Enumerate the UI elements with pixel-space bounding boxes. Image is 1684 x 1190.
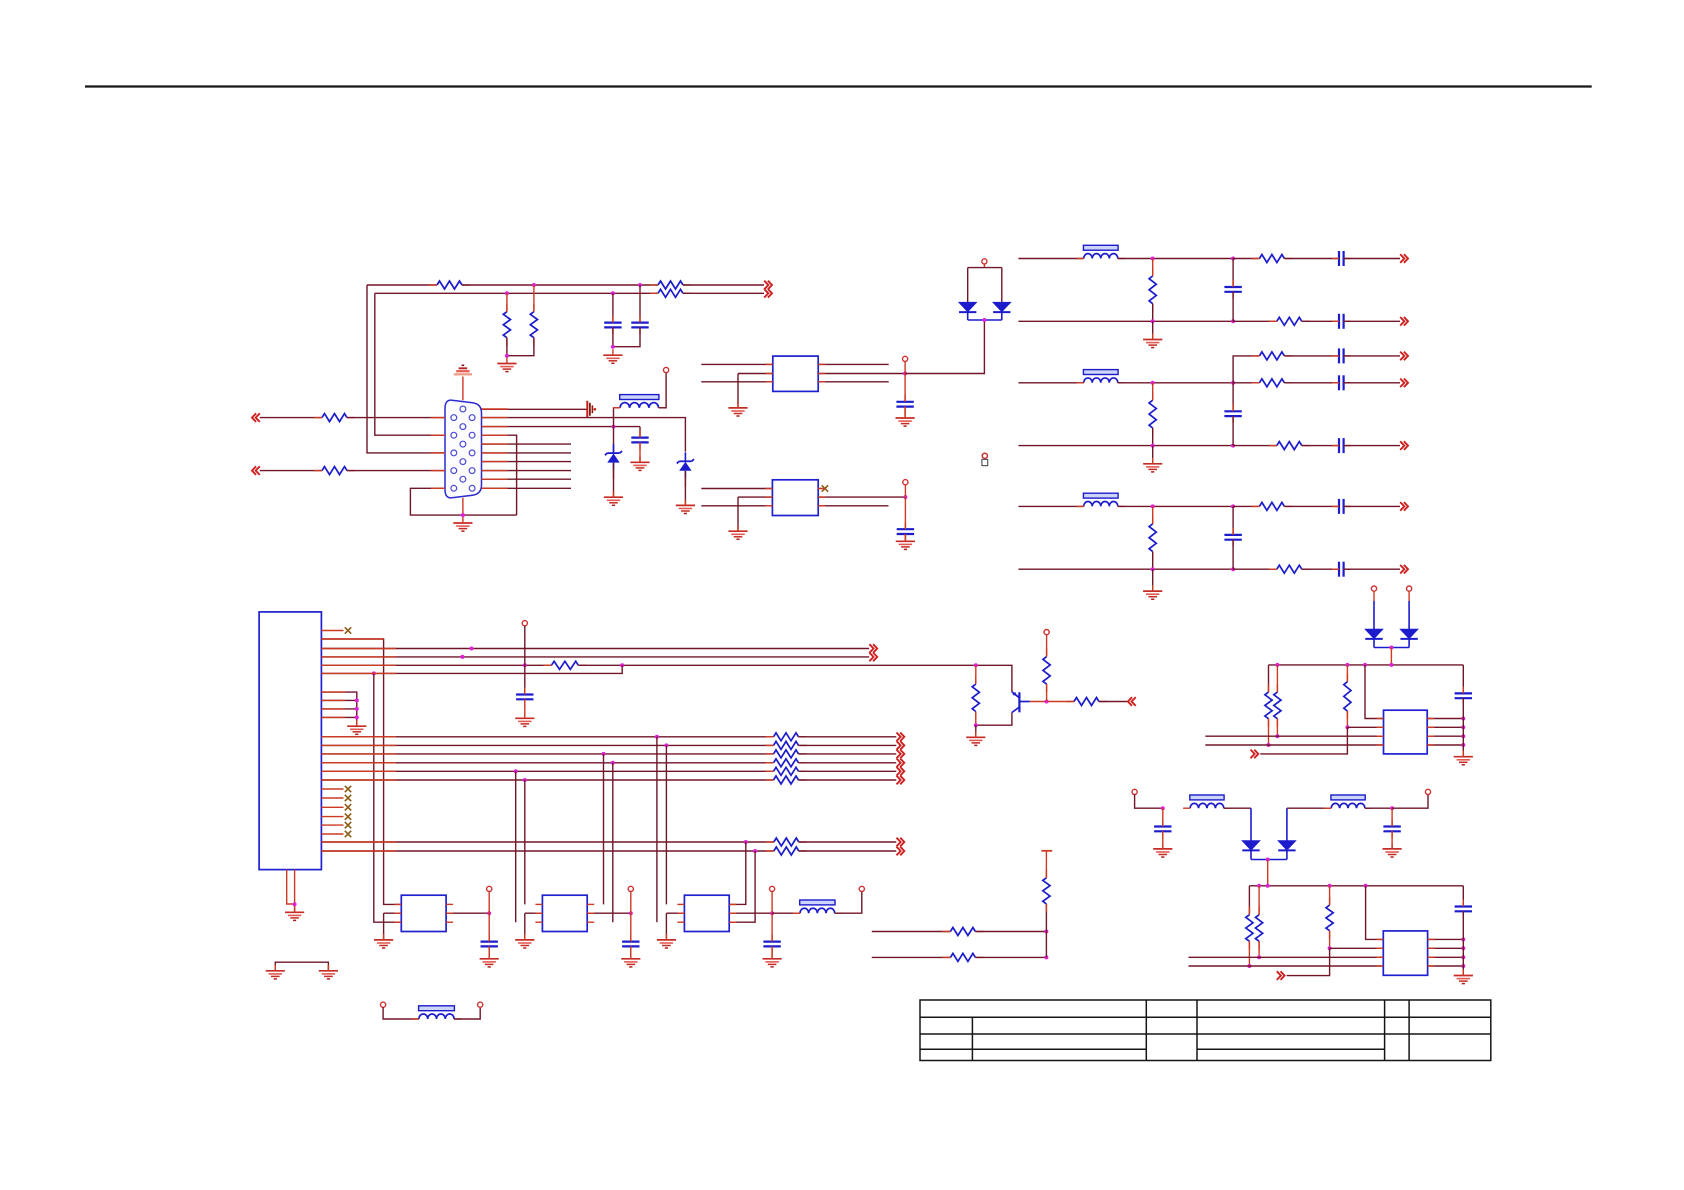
junction U5 out <box>629 911 633 915</box>
terminal TP14 <box>1407 586 1412 591</box>
junction U7 736 <box>1461 734 1465 738</box>
wire usb1 pin2 <box>1347 726 1383 728</box>
wire ch3 cap bot lead <box>1232 540 1234 570</box>
diode D3 <box>959 302 976 312</box>
ground G17 <box>480 953 499 967</box>
wire net1 mid <box>462 284 658 286</box>
junction A3 <box>470 647 474 651</box>
wire U3 row C2 <box>321 744 773 746</box>
wire R19 top lead <box>1346 665 1348 682</box>
series capacitor Cs1 <box>1332 251 1351 266</box>
wire row C1 out <box>799 736 897 738</box>
wire ch2 sig b <box>1233 382 1259 384</box>
junction ch3 bus-cap <box>1231 567 1235 571</box>
test point symbol <box>982 453 988 465</box>
resistor R2 <box>650 281 691 289</box>
wire U1 gnd drop <box>737 374 739 408</box>
junction U7 718 <box>1461 717 1465 721</box>
junction vbus 1391 <box>1389 663 1393 667</box>
filter module U1 <box>773 356 818 391</box>
wire A6 drop to boxA <box>374 673 402 922</box>
junction U1 out <box>903 372 907 376</box>
junction R11 gnd <box>974 723 978 727</box>
wire D4 anode lead <box>1001 268 1003 303</box>
junction U8 948 <box>1461 946 1465 950</box>
junction gnd pin3 <box>355 707 359 711</box>
wire D8 top lead <box>1287 808 1331 841</box>
wire FB9 right lead <box>454 1007 480 1019</box>
ground G9 <box>728 525 747 539</box>
USB filter U7 <box>1384 710 1428 754</box>
terminal TP8 <box>770 886 775 913</box>
junction net1-b <box>638 283 642 287</box>
wire U3 nc pin2 <box>321 797 343 799</box>
wire U3 pin A1 stub <box>321 630 343 632</box>
wire U1 left pin3 stub <box>701 381 773 383</box>
filter module U2 <box>772 480 818 516</box>
wire cap top lead U4 <box>488 913 490 941</box>
resistor RC2 <box>766 741 807 749</box>
series capacitor Cb3 <box>1332 562 1351 577</box>
wire ch2 res top lead <box>1152 383 1154 400</box>
wire U4 midleft gnd <box>384 912 402 914</box>
wire C4 gnd lead <box>904 407 906 418</box>
wire ch1 gnd stem <box>1152 321 1154 339</box>
diode D5 <box>1365 629 1382 639</box>
wire U3 nc pin3 <box>321 806 343 808</box>
ground G20 <box>966 731 985 745</box>
wire vbus upper <box>1269 664 1464 666</box>
junction ch2 sig-cap <box>1231 381 1235 385</box>
capacitor Cch2 <box>1224 404 1241 423</box>
wire U3 nc pin1 <box>321 788 343 790</box>
junction R17 <box>1267 743 1271 747</box>
wire U3 pin A2 net <box>321 639 401 904</box>
no-connect XD4 <box>345 813 351 819</box>
wire C2 drop <box>665 745 667 904</box>
resistor R13 <box>1066 698 1107 706</box>
terminal TP6 <box>487 886 492 913</box>
wire U1 left pin2 gnd <box>738 373 773 375</box>
wire VGA stub 3 <box>482 461 572 463</box>
junction ch3 bus-res <box>1151 567 1155 571</box>
wire U1 right pin3 stub <box>818 381 889 383</box>
ground G11 <box>347 720 366 734</box>
ground G21 <box>266 965 285 979</box>
output port ch3 bus <box>1400 565 1408 574</box>
terminal TP7 <box>628 886 633 913</box>
input port row1 <box>252 413 260 422</box>
wire E2 drop to boxC <box>729 851 755 922</box>
ferrite bead FB11 <box>1324 795 1372 808</box>
resistor Rs1 <box>1251 255 1292 263</box>
resistor Rx2 <box>1251 352 1292 360</box>
input port usb2 <box>1277 971 1285 980</box>
wire zener D1 top lead <box>613 427 615 453</box>
capacitor C3 <box>631 431 648 450</box>
junction C4 <box>611 761 615 765</box>
wire ch2 signal a <box>1118 382 1233 384</box>
resistor R3 <box>650 289 691 297</box>
series capacitor Cx2 <box>1332 348 1351 363</box>
wire C1 top lead <box>612 293 614 322</box>
wire zener D2 bottom lead <box>684 471 686 505</box>
wire usb1 pin1 <box>1365 665 1384 719</box>
wire C1 bottom lead <box>612 327 614 346</box>
wire ch3 bus out <box>1344 568 1400 570</box>
output port C1 <box>897 733 905 742</box>
wire TP15 lead <box>1135 795 1163 809</box>
resistor R16 <box>1043 870 1050 912</box>
ground G19 <box>763 953 782 967</box>
ground Gch2 <box>1143 458 1162 472</box>
wire C3 gnd lead <box>639 442 641 462</box>
wire U5 midleft gnd <box>525 912 543 914</box>
wire D6 anode lead <box>1408 591 1410 629</box>
ground G8 <box>896 412 915 426</box>
wire U3 row E1 <box>321 841 773 843</box>
ferrite bead FB1 <box>613 395 666 408</box>
wire ch3 gnd stem <box>1152 569 1154 591</box>
transistor Q1 <box>1012 692 1030 713</box>
junction R4R5 <box>505 354 509 358</box>
wire R19 bot lead <box>1346 711 1348 727</box>
terminal TP12 <box>478 1002 483 1007</box>
wire C6 drop <box>524 780 526 904</box>
junction gnd pin2 <box>355 698 359 702</box>
junction A5 term <box>523 663 527 667</box>
junction ch2 bus-cap <box>1231 444 1235 448</box>
wire ch1 bus <box>1018 320 1233 322</box>
capacitor C2 <box>631 316 648 335</box>
resistor Rb2 <box>1269 442 1310 450</box>
ground G14 <box>374 934 393 948</box>
resistor RC6 <box>766 776 807 784</box>
junction vbus2 1329 <box>1328 884 1332 888</box>
series capacitor Cb1 <box>1332 314 1351 329</box>
resistor R18 <box>1274 684 1281 727</box>
diode D4 <box>993 302 1010 312</box>
junction R20 <box>1247 964 1251 968</box>
junction E1 <box>744 840 748 844</box>
output port ch2 branch <box>1400 352 1408 361</box>
wire D5D6 to vbus <box>1390 648 1392 665</box>
wire U4 midright net <box>446 912 489 914</box>
junction A6 boxA <box>372 671 376 675</box>
filter module U5 <box>542 895 587 931</box>
wire U2 right pin1 nc <box>818 488 822 490</box>
junction ch1 bus-cap <box>1231 319 1235 323</box>
terminal TP3 <box>982 259 987 264</box>
wire ch3 bus <box>1018 568 1233 570</box>
wire U6 out to FB8 <box>772 912 800 914</box>
junction C5 <box>514 769 518 773</box>
capacitor C12 <box>1383 820 1400 839</box>
output port A4 <box>869 653 877 662</box>
wire R21 top lead <box>1258 886 1260 915</box>
zener diode D2 <box>677 452 694 487</box>
wire ch1 res top lead <box>1152 259 1154 276</box>
junction E2 <box>753 849 757 853</box>
wire U8 right pin 966 <box>1428 965 1464 967</box>
junction ch1 bus-res <box>1151 319 1155 323</box>
wire U3 gnd pin2 <box>321 699 356 701</box>
wire U3 pin A3 net <box>321 648 869 650</box>
wire E1 drop to boxC <box>729 842 746 904</box>
junction zener-ferrite <box>612 425 616 429</box>
resistor R6 <box>314 414 355 422</box>
wire R18 top lead <box>1276 665 1278 692</box>
junction ch3 sig-res <box>1151 504 1155 508</box>
wire diode join rail lower USB <box>1251 850 1287 859</box>
wire U8 right pin 939 <box>1428 938 1464 940</box>
ground G15 <box>515 934 534 948</box>
wire R20 top lead <box>1248 886 1250 915</box>
resistor R14 <box>942 928 983 936</box>
junction vbus2 1365 <box>1364 884 1368 888</box>
wire FB1 right lead <box>659 373 667 408</box>
power tap bar <box>1041 850 1052 852</box>
wire usb1 d- <box>1205 744 1383 746</box>
terminal TP5 <box>522 621 527 626</box>
wire U6 midleft gnd <box>666 912 684 914</box>
wire U4 gnd drop <box>383 913 385 940</box>
ground G23 <box>1454 751 1473 765</box>
VGA connector J1 pins <box>451 406 475 491</box>
wire R5 to R4 join <box>507 338 534 356</box>
output port ch1 bus <box>1400 317 1408 326</box>
terminal TP9 <box>859 886 864 891</box>
wire row4 to VGA <box>347 470 445 472</box>
wire U3 pin A5 net a <box>321 664 551 666</box>
wire ch3 cap top lead <box>1232 506 1234 535</box>
wire usb2 pin1 <box>1366 886 1384 940</box>
junction R21 <box>1257 955 1261 959</box>
junction U2 out <box>903 495 907 499</box>
ground G26 <box>1454 970 1473 984</box>
junction U6 out <box>770 911 774 915</box>
wire FB11 out <box>1365 807 1392 809</box>
ground Gch1 <box>1143 334 1162 348</box>
wire ch3 signal in <box>1018 505 1083 507</box>
wire C5 top lead <box>904 497 906 529</box>
terminal TP10 <box>1044 630 1049 635</box>
resistor R22 <box>1326 897 1333 939</box>
wire U3 gnd pin3 <box>321 708 356 710</box>
wire cap gnd lead U4 <box>488 946 490 958</box>
ground G24 <box>1153 843 1172 857</box>
wire U1 right pin1 stub <box>818 363 889 365</box>
junction ch1 sig-cap <box>1231 257 1235 261</box>
wire row1 to VGA <box>347 417 445 419</box>
junction vbus 1277 <box>1275 663 1279 667</box>
wire net2 drop to VGA pin <box>375 293 445 435</box>
wire R17 top lead <box>1268 665 1270 692</box>
wire ch1 bus out <box>1344 320 1400 322</box>
wire ch2 bus b <box>1233 445 1277 447</box>
wire gnd bridge <box>275 962 328 970</box>
junction U3 gnd <box>293 902 297 906</box>
wire ch1 cap bot lead <box>1232 292 1234 322</box>
wire row C5 out <box>799 770 897 772</box>
diode D8 <box>1278 841 1295 851</box>
wire U3 pin A6 net <box>321 665 622 673</box>
wire R16 top lead <box>1045 851 1047 878</box>
no-connect XD1 <box>345 786 351 792</box>
wire RP1 row <box>872 931 951 933</box>
series capacitor Cs3 <box>1332 499 1351 514</box>
resistor R7 <box>314 467 355 475</box>
wire U2 left pin2 gnd <box>738 496 772 498</box>
input port row4 <box>252 466 260 475</box>
junction RP2 <box>1044 955 1048 959</box>
wire diode join rail upper USB <box>1374 639 1409 648</box>
wire row C2 out <box>799 744 897 746</box>
series capacitor Cs2 <box>1332 375 1351 390</box>
resistor R17 <box>1265 684 1272 727</box>
wire ch2 bus <box>1018 445 1233 447</box>
wire U3 row C4 <box>321 762 773 764</box>
diode D7 <box>1242 841 1259 851</box>
wire U2 right pin3 stub <box>818 505 888 507</box>
junction usb2 out <box>1390 806 1394 810</box>
no-connect XD2 <box>345 795 351 801</box>
wire ch2 gnd stem <box>1152 446 1154 464</box>
junction U8 957 <box>1461 955 1465 959</box>
resistor R5 <box>530 304 537 346</box>
wire U3 pin A5 net b <box>578 665 1012 692</box>
ground G1 <box>497 358 516 372</box>
junction VGA gnd <box>461 513 465 517</box>
wire U3 gnd pin1 <box>321 692 356 726</box>
wire R5 top lead <box>533 285 535 312</box>
wire R12 top lead <box>1046 635 1048 657</box>
wire row4 left <box>260 470 322 472</box>
junction C3 <box>602 752 606 756</box>
junction D7D8 <box>1266 858 1270 862</box>
ground G3 <box>453 517 472 531</box>
wire chev to R19 <box>1260 727 1347 754</box>
no-connect X1 <box>822 485 828 491</box>
wire ch1 res bot lead <box>1152 304 1154 322</box>
capacitor C5 <box>897 522 914 541</box>
junction U8 939 <box>1461 937 1465 941</box>
wire RP1 row b <box>975 931 1046 933</box>
wire net1 top <box>367 284 437 286</box>
ferrite bead FB9 <box>412 1006 461 1019</box>
wire cap top lead U6 <box>771 913 773 941</box>
wire U3 row C1 <box>321 736 773 738</box>
wire U2 right pin2 net <box>818 496 905 498</box>
terminal TP16 <box>1425 789 1430 794</box>
junction net2-b <box>611 291 615 295</box>
wire zener D1 bottom lead <box>613 463 615 497</box>
junction vbus 1365 <box>1363 663 1367 667</box>
wire base out <box>1099 701 1128 703</box>
junction C6 <box>523 778 527 782</box>
wire row E1 out <box>799 841 897 843</box>
wire C11 gnd lead <box>1162 831 1164 849</box>
wire row C3 out <box>799 753 897 755</box>
wire ch1 sig out <box>1344 258 1400 260</box>
capacitor C7 <box>481 935 498 954</box>
ground G6 <box>676 499 695 513</box>
wire ch1 sig c <box>1284 258 1339 260</box>
ground G10 <box>896 535 915 549</box>
capacitor Cch1 <box>1224 280 1241 299</box>
ground G13 <box>285 906 304 920</box>
junction ch1 sig-res <box>1151 257 1155 261</box>
junction C2 <box>664 743 668 747</box>
resistor R19 <box>1344 674 1351 719</box>
wire cap to pins 2 <box>1462 911 1464 975</box>
ferrite bead FB1 <box>1077 245 1125 258</box>
diode D6 <box>1400 629 1417 639</box>
wire C1 drop <box>656 737 658 922</box>
wire usb2 d- <box>1189 965 1384 967</box>
filter module U4 <box>401 895 446 931</box>
wire ch2 cap bot lead <box>1232 416 1234 446</box>
wire C12 gnd lead <box>1391 831 1393 849</box>
wire net1 drop to VGA pin <box>367 285 445 453</box>
wire row1 left <box>260 417 322 419</box>
resistor R20 <box>1246 907 1253 950</box>
wire U3 row C6 <box>321 779 773 781</box>
wire R11 bottom lead <box>975 712 977 726</box>
wire U3 nc pin6 <box>321 833 343 835</box>
wire ch1 signal a <box>1118 258 1233 260</box>
junction net2-a <box>505 291 509 295</box>
wire U7 right pin 736 <box>1427 735 1463 737</box>
USB filter U8 <box>1383 931 1427 975</box>
output port ch1 sig <box>1400 254 1408 263</box>
wire FB10 to D7 <box>1224 808 1251 841</box>
wire ch3 signal a <box>1118 505 1233 507</box>
junction A5 A6 <box>620 663 624 667</box>
wire D5 anode lead <box>1373 591 1375 629</box>
wire ch2 sig c <box>1284 382 1339 384</box>
resistor Rs2 <box>1251 379 1292 387</box>
wire ch1 sig b <box>1233 258 1259 260</box>
resistor RC1 <box>766 733 807 741</box>
wire U2 gnd drop <box>737 497 739 531</box>
ferrite bead FB10 <box>1183 795 1231 808</box>
no-connect X2 <box>345 627 351 633</box>
chassis earth symbol above VGA <box>454 365 472 374</box>
title block table <box>920 1000 1491 1061</box>
wire U5 midright net <box>587 912 631 914</box>
wire U3 pin A4 net <box>321 656 869 658</box>
resistor Rs3 <box>1251 502 1292 510</box>
wire ch1 cap top lead <box>1232 259 1234 288</box>
resistor Rb1 <box>1269 317 1310 325</box>
wire vbus lower <box>1249 885 1463 887</box>
resistor R1 <box>429 281 470 289</box>
wire FB1 left lead <box>614 408 621 427</box>
wire R22 bot lead <box>1329 931 1331 949</box>
output port ch2 bus <box>1400 441 1408 450</box>
wire U3 row C3 <box>321 753 773 755</box>
capacitor C1 <box>604 316 621 335</box>
junction vbus2 1259 <box>1257 884 1261 888</box>
wire U1 right pin2 net <box>818 373 905 375</box>
IC U3 (scaler) <box>259 612 321 870</box>
wire C11 top lead <box>1162 808 1164 826</box>
wire FB8 to TP9 <box>835 892 862 914</box>
wire R4 bottom lead <box>506 338 508 356</box>
ground G12 <box>515 712 534 726</box>
no-connect XD6 <box>345 831 351 837</box>
